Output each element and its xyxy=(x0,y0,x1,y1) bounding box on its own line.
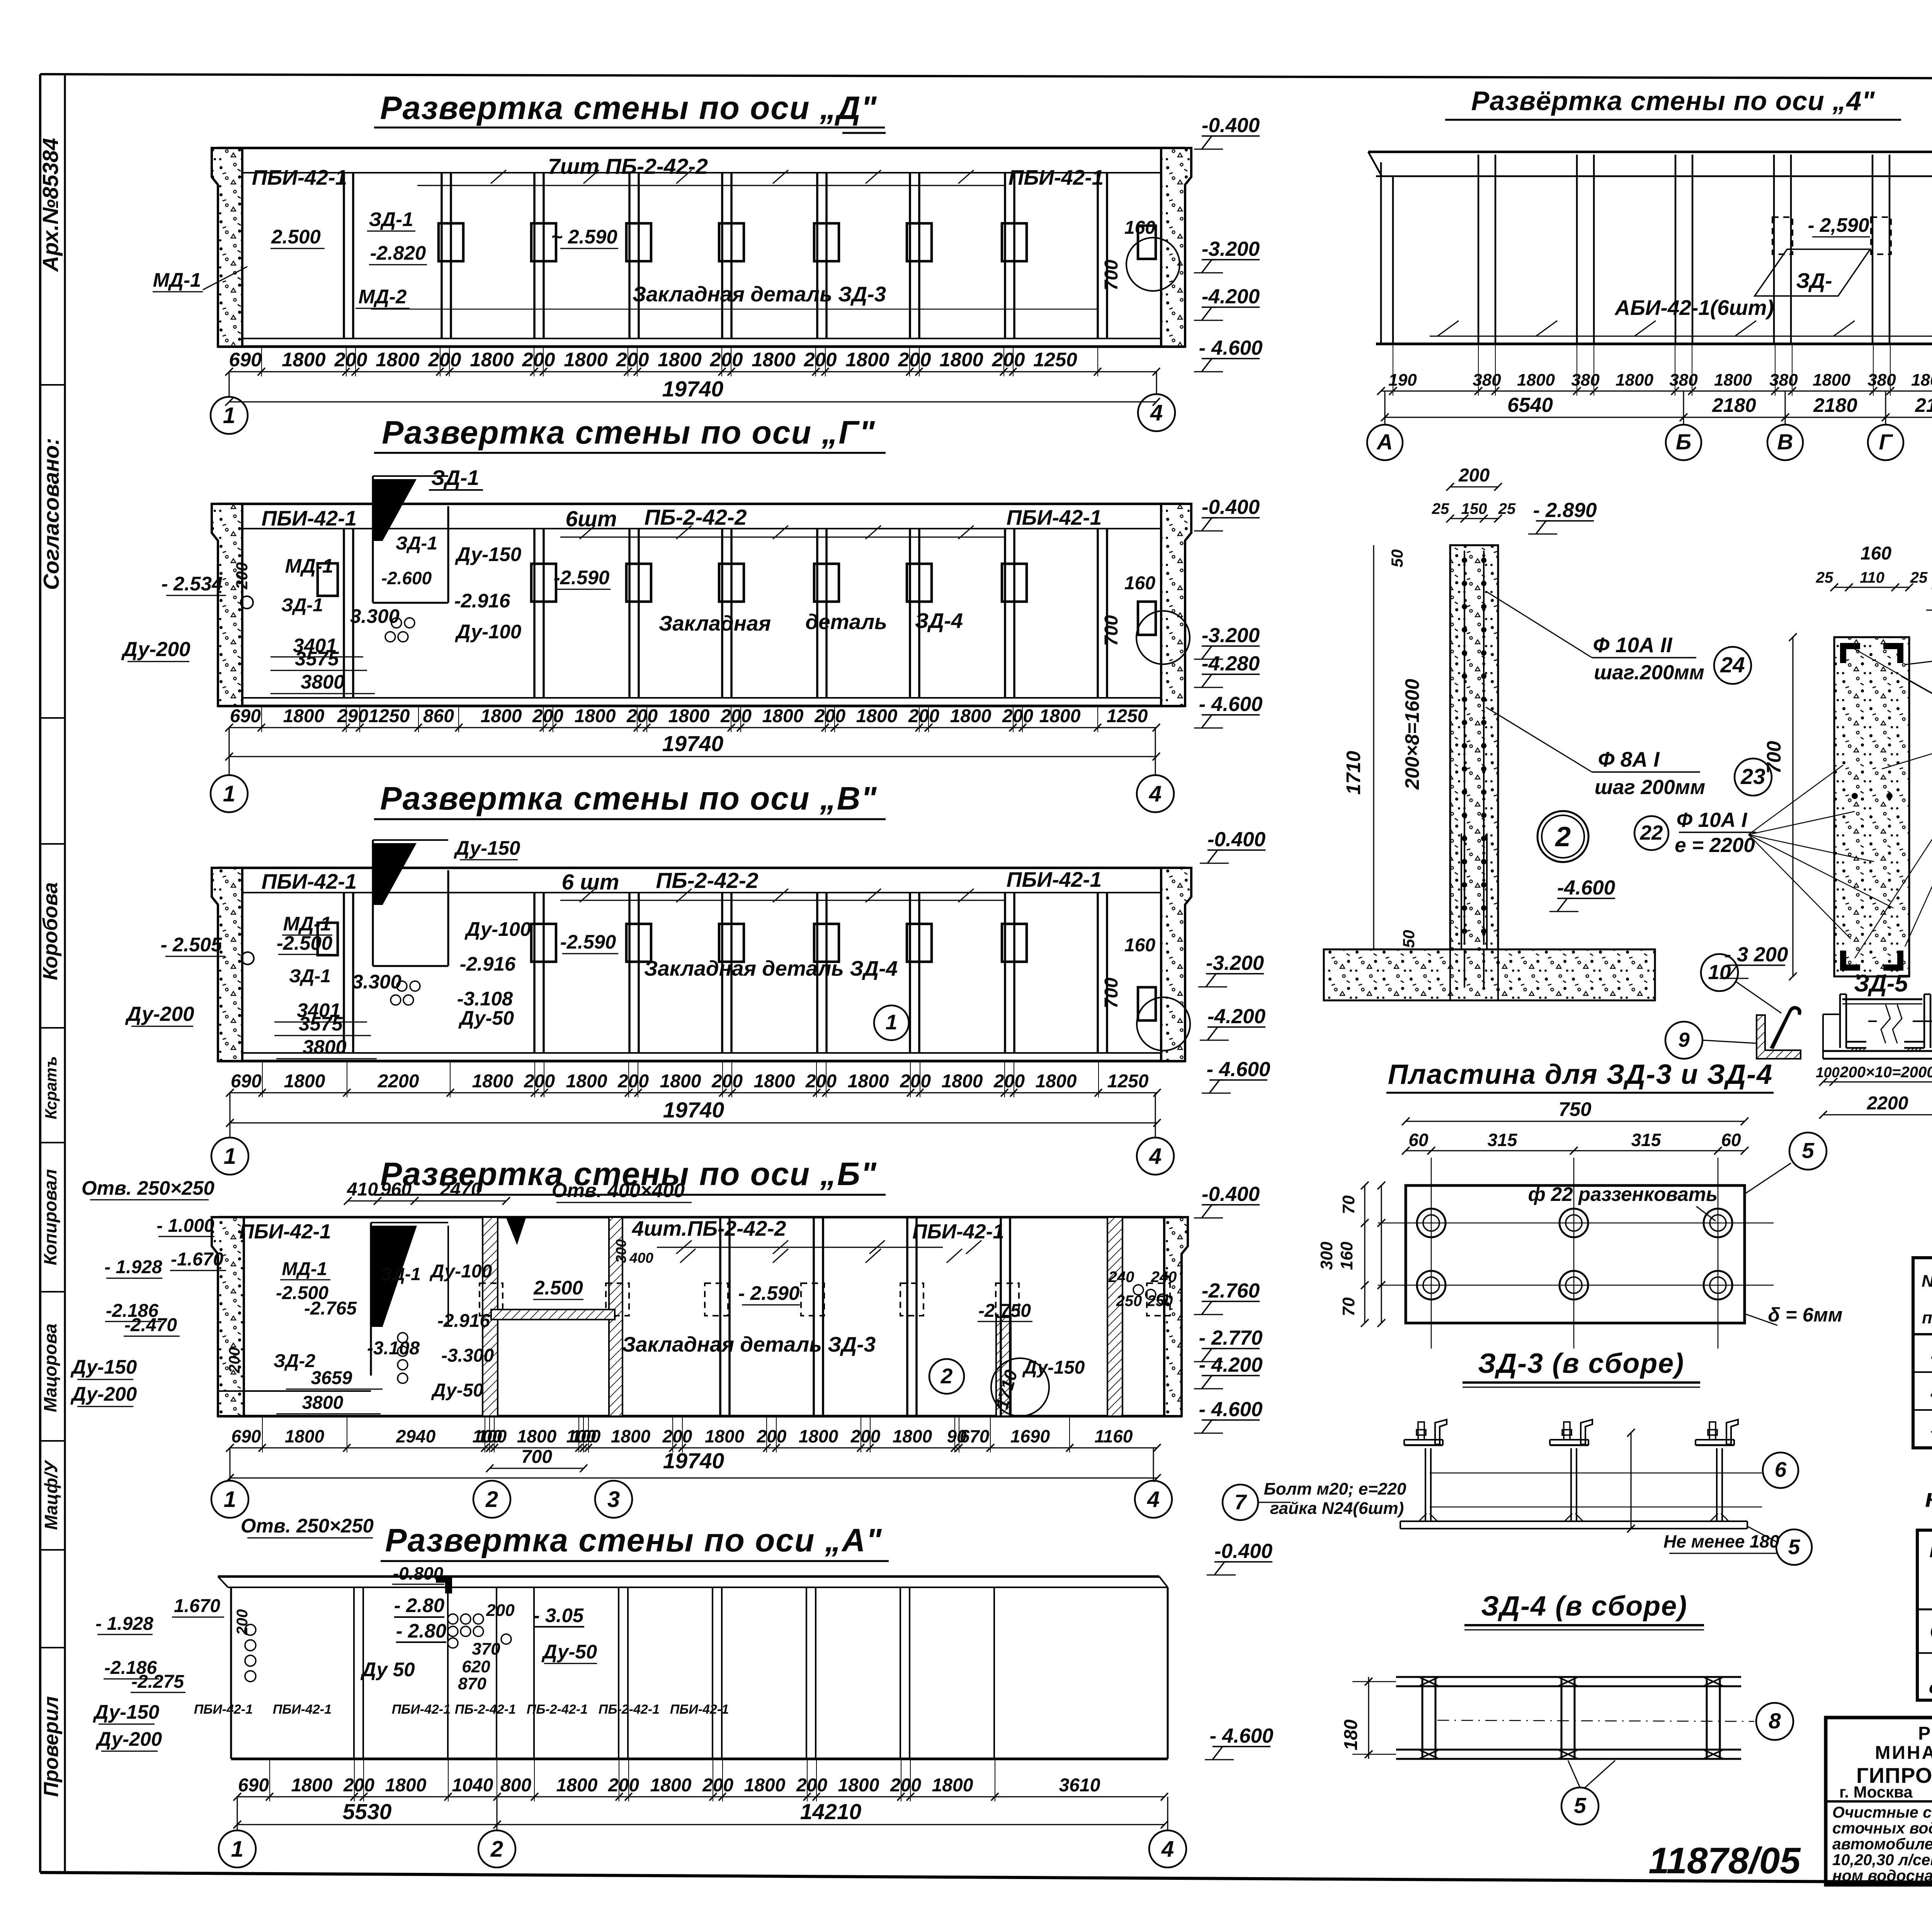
svg-text:200: 200 xyxy=(343,1775,374,1796)
svg-text:-2.590: -2.590 xyxy=(560,931,616,953)
svg-text:10,20,30 л/сек при оборот-: 10,20,30 л/сек при оборот- xyxy=(1832,1851,1932,1869)
svg-text:Ду-50: Ду-50 xyxy=(431,1380,483,1401)
svg-text:Пластина для ЗД-3 и ЗД-4: Пластина для ЗД-3 и ЗД-4 xyxy=(1388,1059,1773,1090)
extension lines xyxy=(261,347,262,376)
svg-text:МД-1: МД-1 xyxy=(153,269,201,291)
svg-text:1800: 1800 xyxy=(893,1426,932,1446)
svg-text:Закладная деталь ЗД-4: Закладная деталь ЗД-4 xyxy=(644,956,898,980)
svg-text:Коробова: Коробова xyxy=(39,882,62,980)
svg-text:2.500: 2.500 xyxy=(271,226,321,248)
elevation B top small dims xyxy=(348,1201,506,1202)
svg-text:160: 160 xyxy=(1124,218,1155,238)
svg-text:Закладная: Закладная xyxy=(659,611,771,635)
svg-text:Ф 10А I: Ф 10А I xyxy=(1677,809,1748,832)
svg-text:4: 4 xyxy=(1150,400,1163,425)
svg-text:-2.470: -2.470 xyxy=(124,1315,177,1335)
svg-text:Развертка стены по оси „Д": Развертка стены по оси „Д" xyxy=(380,90,878,126)
svg-text:1800: 1800 xyxy=(650,1775,692,1796)
svg-text:700: 700 xyxy=(1763,741,1785,774)
svg-text:200: 200 xyxy=(616,349,649,371)
svg-text:1800: 1800 xyxy=(385,1775,427,1796)
elevation V body xyxy=(218,867,1185,869)
svg-text:5: 5 xyxy=(1788,1535,1801,1559)
svg-text:Развертка стены по оси „Г": Развертка стены по оси „Г" xyxy=(382,414,875,451)
svg-text:Ф 10А II: Ф 10А II xyxy=(1593,633,1673,657)
svg-text:МИНАВТОТРАНС: МИНАВТОТРАНС xyxy=(1875,1743,1932,1763)
svg-text:200: 200 xyxy=(720,706,752,726)
svg-text:ЗД-: ЗД- xyxy=(1796,269,1832,293)
svg-text:Ду-200: Ду-200 xyxy=(121,638,190,661)
svg-text:2200: 2200 xyxy=(1867,1093,1908,1114)
svg-text:200: 200 xyxy=(617,1071,649,1092)
svg-text:200: 200 xyxy=(626,706,658,726)
svg-text:1710: 1710 xyxy=(1342,751,1364,794)
svg-text:ном водоснабжении.: ном водоснабжении. xyxy=(1832,1867,1932,1884)
svg-text:25: 25 xyxy=(1432,500,1449,517)
svg-text:-4.200: -4.200 xyxy=(1207,1005,1265,1028)
svg-text:Ф 8А I: Ф 8А I xyxy=(1598,747,1660,771)
svg-text:315: 315 xyxy=(1631,1130,1662,1150)
svg-text:ЗД-1: ЗД-1 xyxy=(431,466,479,490)
svg-text:Р С Ф С Р: Р С Ф С Р xyxy=(1918,1723,1932,1744)
svg-text:ф 22 раззенковать: ф 22 раззенковать xyxy=(1528,1183,1718,1205)
svg-text:6540: 6540 xyxy=(1507,394,1553,417)
svg-text:2180: 2180 xyxy=(1813,394,1857,416)
svg-text:- 2,590: - 2,590 xyxy=(1808,214,1869,236)
svg-text:-0.400: -0.400 xyxy=(1207,828,1265,851)
svg-text:Мацорова: Мацорова xyxy=(40,1323,60,1412)
svg-text:200: 200 xyxy=(428,349,461,371)
svg-text:1690: 1690 xyxy=(1010,1426,1050,1446)
svg-text:1800: 1800 xyxy=(282,349,325,371)
svg-text:Развёртка стены по оси „4": Развёртка стены по оси „4" xyxy=(1471,86,1875,116)
svg-text:410: 410 xyxy=(347,1179,378,1200)
svg-text:1800: 1800 xyxy=(564,349,607,371)
svg-text:Болт м20; е=220: Болт м20; е=220 xyxy=(1264,1480,1406,1498)
elevation 4 embeds xyxy=(1772,217,1793,254)
svg-text:1800: 1800 xyxy=(611,1426,651,1446)
svg-text:620: 620 xyxy=(462,1657,490,1676)
axis circles V row xyxy=(211,1138,248,1175)
svg-text:380: 380 xyxy=(1769,371,1798,389)
svg-text:60: 60 xyxy=(1408,1130,1429,1150)
svg-text:200: 200 xyxy=(233,562,251,590)
axis circles A row xyxy=(219,1830,256,1867)
svg-text:МД-1: МД-1 xyxy=(285,555,333,577)
svg-text:шаг.200мм: шаг.200мм xyxy=(1594,661,1704,684)
axis circles row for 4 xyxy=(1367,425,1403,460)
svg-text:- 4.600: - 4.600 xyxy=(1209,1725,1273,1747)
svg-text:ПБ-2-42-1: ПБ-2-42-1 xyxy=(599,1702,660,1717)
svg-text:200: 200 xyxy=(814,706,845,726)
svg-text:200: 200 xyxy=(850,1426,881,1446)
svg-text:1800: 1800 xyxy=(668,706,710,726)
svg-text:-3.200: -3.200 xyxy=(1206,952,1264,975)
svg-text:- 4.600: - 4.600 xyxy=(1199,1398,1262,1421)
svg-text:4: 4 xyxy=(1147,1487,1160,1512)
svg-text:19740: 19740 xyxy=(663,1449,724,1473)
svg-text:5530: 5530 xyxy=(343,1799,392,1824)
svg-text:290: 290 xyxy=(337,706,368,726)
svg-text:-2.500: -2.500 xyxy=(277,932,333,954)
svg-text:-2.916: -2.916 xyxy=(460,953,516,975)
elevation G dims xyxy=(229,727,1156,728)
svg-text:2470: 2470 xyxy=(440,1179,481,1200)
svg-text:1800: 1800 xyxy=(658,349,701,371)
svg-text:Арх.№85384: Арх.№85384 xyxy=(38,138,63,272)
svg-text:Закладная деталь ЗД-3: Закладная деталь ЗД-3 xyxy=(622,1332,876,1356)
concrete-steel grid xyxy=(1917,1530,1932,1700)
svg-text:380: 380 xyxy=(1867,371,1896,389)
svg-text:Развертка стены по оси „В": Развертка стены по оси „В" xyxy=(380,780,878,816)
svg-text:1: 1 xyxy=(886,1010,898,1034)
svg-text:-1.670: -1.670 xyxy=(171,1249,223,1270)
svg-text:-2.600: -2.600 xyxy=(381,568,432,588)
svg-text:ПБИ-42-1: ПБИ-42-1 xyxy=(670,1702,729,1717)
svg-text:Ду-150: Ду-150 xyxy=(454,837,520,859)
svg-text:3800: 3800 xyxy=(303,1036,346,1058)
elevation A body xyxy=(218,1575,1159,1578)
svg-text:1800: 1800 xyxy=(848,1071,889,1092)
svg-text:6: 6 xyxy=(1775,1458,1787,1481)
svg-text:4: 4 xyxy=(1149,1144,1162,1169)
svg-text:1800: 1800 xyxy=(472,1071,514,1092)
svg-text:24: 24 xyxy=(1720,653,1745,677)
svg-text:10: 10 xyxy=(1708,961,1731,984)
svg-text:ЗД-4 (в сборе): ЗД-4 (в сборе) xyxy=(1481,1591,1687,1622)
svg-text:200: 200 xyxy=(805,1071,837,1092)
svg-text:180: 180 xyxy=(1341,1719,1361,1750)
svg-text:22: 22 xyxy=(1640,821,1663,844)
svg-text:- 3 200: - 3 200 xyxy=(1724,943,1788,966)
title block xyxy=(1826,1718,1932,1885)
svg-text:ПБИ-42-1: ПБИ-42-1 xyxy=(262,869,357,893)
svg-text:300: 300 xyxy=(1317,1242,1336,1270)
svg-text:3659: 3659 xyxy=(311,1368,352,1388)
stamp strip xyxy=(40,384,65,386)
svg-text:Г: Г xyxy=(1879,430,1894,454)
svg-text:1800: 1800 xyxy=(799,1426,838,1446)
svg-text:1800: 1800 xyxy=(942,1071,983,1092)
svg-text:1800: 1800 xyxy=(285,1426,325,1446)
svg-text:200: 200 xyxy=(226,1347,243,1374)
hook detail 9 10 xyxy=(1757,1015,1801,1059)
svg-text:1800: 1800 xyxy=(470,349,514,371)
ZD-4 assembly body xyxy=(1396,1676,1741,1678)
svg-text:- 4.200: - 4.200 xyxy=(1199,1354,1262,1376)
svg-text:-0.400: -0.400 xyxy=(1202,114,1260,137)
svg-text:-3.300: -3.300 xyxy=(441,1345,494,1366)
svg-text:МД-1: МД-1 xyxy=(282,1259,327,1279)
svg-text:3610: 3610 xyxy=(1059,1775,1100,1796)
svg-text:160: 160 xyxy=(1337,1242,1356,1270)
elevation D dimension rows xyxy=(229,371,1156,372)
svg-text:- 2.890: - 2.890 xyxy=(1533,499,1597,522)
svg-text:150: 150 xyxy=(1461,500,1487,517)
svg-text:ЗД-1: ЗД-1 xyxy=(381,1264,421,1284)
svg-text:2.500: 2.500 xyxy=(533,1277,583,1299)
svg-text:1: 1 xyxy=(224,1487,236,1512)
svg-text:1800: 1800 xyxy=(754,1071,795,1092)
svg-text:100: 100 xyxy=(477,1426,507,1446)
svg-text:70: 70 xyxy=(1339,1195,1358,1214)
svg-text:п.п.: п.п. xyxy=(1922,1308,1932,1327)
svg-text:-3.108: -3.108 xyxy=(367,1338,420,1359)
svg-text:5: 5 xyxy=(1574,1793,1587,1818)
svg-text:5: 5 xyxy=(1802,1138,1815,1163)
svg-text:240: 240 xyxy=(1108,1269,1134,1286)
svg-text:- 2.590: - 2.590 xyxy=(738,1282,800,1304)
svg-text:Б: Б xyxy=(1676,430,1691,454)
svg-text:160: 160 xyxy=(1124,573,1155,594)
svg-text:сб и распр камер: сб и распр камер xyxy=(1929,1678,1932,1697)
svg-text:670: 670 xyxy=(960,1426,990,1446)
svg-text:Ду-200: Ду-200 xyxy=(70,1383,137,1405)
svg-text:Ду-100: Ду-100 xyxy=(455,621,522,643)
svg-text:ЗД-1: ЗД-1 xyxy=(281,595,323,616)
svg-text:Наименование: Наименование xyxy=(1929,1539,1932,1561)
svg-text:-2.590: -2.590 xyxy=(554,566,610,588)
svg-text:400: 400 xyxy=(629,1250,653,1266)
svg-text:2180: 2180 xyxy=(1712,394,1756,416)
svg-text:1800: 1800 xyxy=(1813,371,1850,389)
svg-text:110: 110 xyxy=(1860,569,1884,586)
svg-text:- 1.000: - 1.000 xyxy=(156,1216,214,1236)
svg-text:-4.200: -4.200 xyxy=(1202,285,1260,308)
svg-text:1800: 1800 xyxy=(762,706,804,726)
elevation axis D body xyxy=(218,147,1185,150)
elevation A dims xyxy=(237,1796,1165,1798)
svg-text:Проверил: Проверил xyxy=(40,1696,63,1797)
svg-text:1800: 1800 xyxy=(932,1775,973,1796)
svg-text:200: 200 xyxy=(234,1609,251,1636)
svg-text:19740: 19740 xyxy=(662,731,724,756)
svg-text:Ду-100: Ду-100 xyxy=(429,1261,492,1282)
svg-text:1800: 1800 xyxy=(1517,371,1555,389)
svg-text:-2.275: -2.275 xyxy=(131,1672,184,1692)
svg-text:370: 370 xyxy=(472,1639,500,1658)
svg-text:1: 1 xyxy=(223,403,235,428)
svg-text:1160: 1160 xyxy=(1095,1426,1133,1446)
svg-text:Ксратъ: Ксратъ xyxy=(42,1056,60,1119)
svg-text:- 1.928: - 1.928 xyxy=(95,1614,153,1634)
svg-text:200: 200 xyxy=(900,1071,931,1092)
svg-text:1: 1 xyxy=(224,1144,236,1169)
svg-text:200×8=1600: 200×8=1600 xyxy=(1401,679,1423,790)
svg-text:-4.280: -4.280 xyxy=(1202,652,1260,675)
svg-text:В: В xyxy=(1777,430,1793,454)
svg-text:Ду 50: Ду 50 xyxy=(360,1658,415,1680)
svg-text:200: 200 xyxy=(908,706,939,726)
svg-text:700: 700 xyxy=(521,1447,552,1467)
svg-text:-0.400: -0.400 xyxy=(1202,496,1260,519)
svg-text:1800: 1800 xyxy=(566,1071,607,1092)
svg-text:Отв. 250×250: Отв. 250×250 xyxy=(82,1177,214,1199)
svg-text:Ду-100: Ду-100 xyxy=(464,918,531,940)
svg-text:ПБИ-42-1: ПБИ-42-1 xyxy=(194,1702,253,1717)
svg-text:4: 4 xyxy=(1149,781,1162,806)
svg-text:1250: 1250 xyxy=(1033,349,1077,371)
svg-text:-0.400: -0.400 xyxy=(1214,1540,1272,1563)
svg-text:200: 200 xyxy=(1458,465,1490,486)
svg-text:гайка N24(6шт): гайка N24(6шт) xyxy=(1270,1499,1404,1518)
svg-text:700: 700 xyxy=(1101,978,1122,1009)
svg-text:200: 200 xyxy=(993,1071,1025,1092)
svg-text:ЗД-5: ЗД-5 xyxy=(1854,970,1908,997)
svg-text:70: 70 xyxy=(1339,1297,1358,1316)
svg-text:-3.200: -3.200 xyxy=(1202,624,1260,647)
ZD-3 assembly body xyxy=(1400,1520,1747,1522)
svg-text:25: 25 xyxy=(1910,569,1928,586)
svg-text:200: 200 xyxy=(1002,706,1033,726)
svg-text:23: 23 xyxy=(1740,764,1765,789)
svg-text:Развертка стены по оси „А": Развертка стены по оси „А" xyxy=(385,1522,883,1558)
svg-text:ПБИ-42-1: ПБИ-42-1 xyxy=(1007,505,1102,529)
svg-text:- 2.534: - 2.534 xyxy=(162,573,223,595)
svg-text:200: 200 xyxy=(890,1775,921,1796)
axis circles B row xyxy=(211,1481,248,1518)
svg-text:1800: 1800 xyxy=(950,706,992,726)
svg-text:г. Москва: г. Москва xyxy=(1839,1783,1913,1801)
svg-text:160: 160 xyxy=(1861,543,1891,564)
svg-text:1250: 1250 xyxy=(1107,706,1148,726)
svg-text:2200: 2200 xyxy=(378,1071,419,1092)
svg-text:А: А xyxy=(1376,430,1393,454)
svg-text:2: 2 xyxy=(490,1837,503,1862)
svg-text:1800: 1800 xyxy=(1616,371,1653,389)
svg-text:960: 960 xyxy=(381,1179,412,1200)
svg-text:200: 200 xyxy=(702,1775,733,1796)
svg-text:Ду-150: Ду-150 xyxy=(455,543,522,565)
svg-text:- 4.600: - 4.600 xyxy=(1199,337,1262,359)
svg-text:6шт: 6шт xyxy=(565,507,617,531)
svg-text:- 1.928: - 1.928 xyxy=(104,1257,162,1277)
svg-text:-2.916: -2.916 xyxy=(454,590,510,612)
svg-text:200: 200 xyxy=(532,706,563,726)
svg-text:1800: 1800 xyxy=(1911,371,1932,389)
panel slash marks xyxy=(491,170,506,184)
svg-text:МД-2: МД-2 xyxy=(359,286,407,308)
svg-text:1800: 1800 xyxy=(838,1775,879,1796)
svg-text:- 2.770: - 2.770 xyxy=(1199,1327,1262,1349)
svg-text:200: 200 xyxy=(524,1071,555,1092)
svg-text:-2.820: -2.820 xyxy=(370,242,426,264)
concrete table grid xyxy=(1913,1258,1932,1448)
elevation B dims xyxy=(230,1447,1157,1449)
svg-text:8: 8 xyxy=(1769,1709,1781,1733)
svg-text:800: 800 xyxy=(500,1775,531,1796)
svg-text:деталь: деталь xyxy=(805,610,887,634)
svg-text:1250: 1250 xyxy=(369,706,410,726)
svg-text:-2.750: -2.750 xyxy=(978,1301,1031,1321)
svg-text:3800: 3800 xyxy=(301,671,344,693)
svg-text:ЗД-4: ЗД-4 xyxy=(915,609,963,633)
svg-text:е = 2200: е = 2200 xyxy=(1675,834,1755,857)
plate body xyxy=(1406,1185,1745,1323)
svg-text:-0.400: -0.400 xyxy=(1202,1183,1260,1206)
svg-text:11878/05: 11878/05 xyxy=(1648,1840,1801,1881)
svg-text:Ду-50: Ду-50 xyxy=(541,1641,597,1663)
svg-text:1040: 1040 xyxy=(452,1775,493,1796)
svg-text:860: 860 xyxy=(423,706,454,726)
plate dims xyxy=(1406,1121,1745,1122)
sheet frame xyxy=(39,74,41,1872)
svg-text:1800: 1800 xyxy=(744,1775,786,1796)
svg-text:50: 50 xyxy=(1400,930,1418,948)
svg-text:Отв. 400×400: Отв. 400×400 xyxy=(552,1179,685,1201)
svg-text:1800: 1800 xyxy=(376,349,419,371)
svg-text:ПБИ-42-1: ПБИ-42-1 xyxy=(392,1702,451,1717)
svg-text:ПБИ-42-1: ПБИ-42-1 xyxy=(262,506,357,530)
svg-text:1800: 1800 xyxy=(660,1071,701,1092)
svg-text:14210: 14210 xyxy=(800,1799,862,1824)
svg-text:1800: 1800 xyxy=(517,1426,557,1446)
svg-text:3575: 3575 xyxy=(295,648,339,670)
svg-text:1800: 1800 xyxy=(705,1426,745,1446)
svg-text:2180: 2180 xyxy=(1915,394,1932,416)
svg-text:ЗД-3 (в сборе): ЗД-3 (в сборе) xyxy=(1478,1348,1684,1379)
svg-text:Ду-150: Ду-150 xyxy=(70,1356,137,1378)
svg-text:200: 200 xyxy=(522,349,555,371)
svg-text:1800: 1800 xyxy=(556,1775,598,1796)
svg-text:690: 690 xyxy=(231,1426,261,1446)
svg-text:- 4.600: - 4.600 xyxy=(1199,693,1262,716)
svg-text:2940: 2940 xyxy=(396,1426,436,1446)
svg-text:7шт ПБ-2-42-2: 7шт ПБ-2-42-2 xyxy=(548,154,708,179)
svg-text:1: 1 xyxy=(223,781,235,806)
svg-text:Ду-50: Ду-50 xyxy=(458,1007,514,1029)
svg-text:~ 2.590: ~ 2.590 xyxy=(551,226,617,248)
svg-text:200: 200 xyxy=(662,1426,692,1446)
elevation 4 body xyxy=(1368,151,1932,153)
svg-text:1800: 1800 xyxy=(845,349,889,371)
svg-text:N N: N N xyxy=(1922,1272,1932,1291)
svg-text:200: 200 xyxy=(709,349,743,371)
svg-text:6 шт: 6 шт xyxy=(562,870,619,895)
svg-text:Отв. 250×250: Отв. 250×250 xyxy=(241,1515,374,1537)
svg-text:- 4.600: - 4.600 xyxy=(1206,1058,1270,1081)
svg-text:50: 50 xyxy=(1388,549,1406,568)
svg-text:870: 870 xyxy=(458,1674,486,1693)
svg-text:200×10=2000: 200×10=2000 xyxy=(1840,1064,1932,1081)
svg-text:690: 690 xyxy=(230,706,261,726)
svg-text:100: 100 xyxy=(571,1426,601,1446)
svg-text:ЗД-1: ЗД-1 xyxy=(289,966,331,986)
svg-text:380: 380 xyxy=(1571,371,1600,389)
svg-text:1800: 1800 xyxy=(291,1775,333,1796)
svg-text:700: 700 xyxy=(1101,260,1122,291)
svg-text:200: 200 xyxy=(711,1071,743,1092)
svg-text:19740: 19740 xyxy=(663,1098,724,1122)
svg-text:ПБ-2-42-1: ПБ-2-42-1 xyxy=(455,1702,516,1717)
svg-text:-2.916: -2.916 xyxy=(437,1311,490,1331)
svg-text:ЗД-1: ЗД-1 xyxy=(396,533,437,554)
axis circles D row xyxy=(211,397,248,434)
svg-text:МД-1: МД-1 xyxy=(283,913,332,935)
svg-text:7: 7 xyxy=(1235,1490,1247,1514)
svg-text:1800: 1800 xyxy=(856,706,898,726)
svg-text:4: 4 xyxy=(1161,1837,1174,1862)
svg-text:ПБ-2-42-2: ПБ-2-42-2 xyxy=(656,868,758,893)
elevation V dims xyxy=(230,1092,1157,1094)
svg-text:ПБ-2-42-2: ПБ-2-42-2 xyxy=(644,505,747,530)
svg-text:3: 3 xyxy=(607,1487,620,1512)
svg-text:690: 690 xyxy=(229,349,262,371)
section node 2 xyxy=(1450,545,1498,949)
svg-text:700: 700 xyxy=(1101,615,1122,646)
svg-text:АБИ-42-1(6шт): АБИ-42-1(6шт) xyxy=(1614,296,1774,320)
svg-text:- 2.80: - 2.80 xyxy=(396,1620,446,1642)
